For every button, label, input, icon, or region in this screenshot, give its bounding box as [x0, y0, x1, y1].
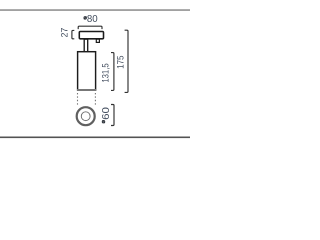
cylinder body [78, 52, 96, 90]
cylinder bottom rim (gray) [77, 89, 96, 91]
dimension bracket ø80 [78, 26, 102, 29]
bottom rule [0, 137, 190, 139]
top rule [0, 9, 190, 11]
dimension bracket 27 [72, 30, 74, 38]
contact tab [96, 39, 99, 42]
svg-text:27: 27 [60, 28, 70, 38]
hidden edge dotted left [77, 93, 79, 106]
dimension label ø60 [101, 107, 112, 123]
dimension bracket ø60 [111, 105, 114, 126]
svg-text:60: 60 [101, 107, 112, 120]
front view inner circle [81, 112, 90, 121]
svg-text:175: 175 [115, 56, 125, 69]
svg-text:131,5: 131,5 [101, 63, 111, 82]
front view outer ring [77, 107, 95, 125]
dimension bracket 175 [125, 30, 128, 92]
track adapter box [79, 32, 103, 39]
svg-text:80: 80 [87, 14, 98, 25]
dimension bracket 131,5 [111, 53, 114, 91]
hidden edge dotted right [94, 93, 96, 106]
stem [84, 39, 88, 52]
dimension label ø80 [84, 14, 98, 25]
